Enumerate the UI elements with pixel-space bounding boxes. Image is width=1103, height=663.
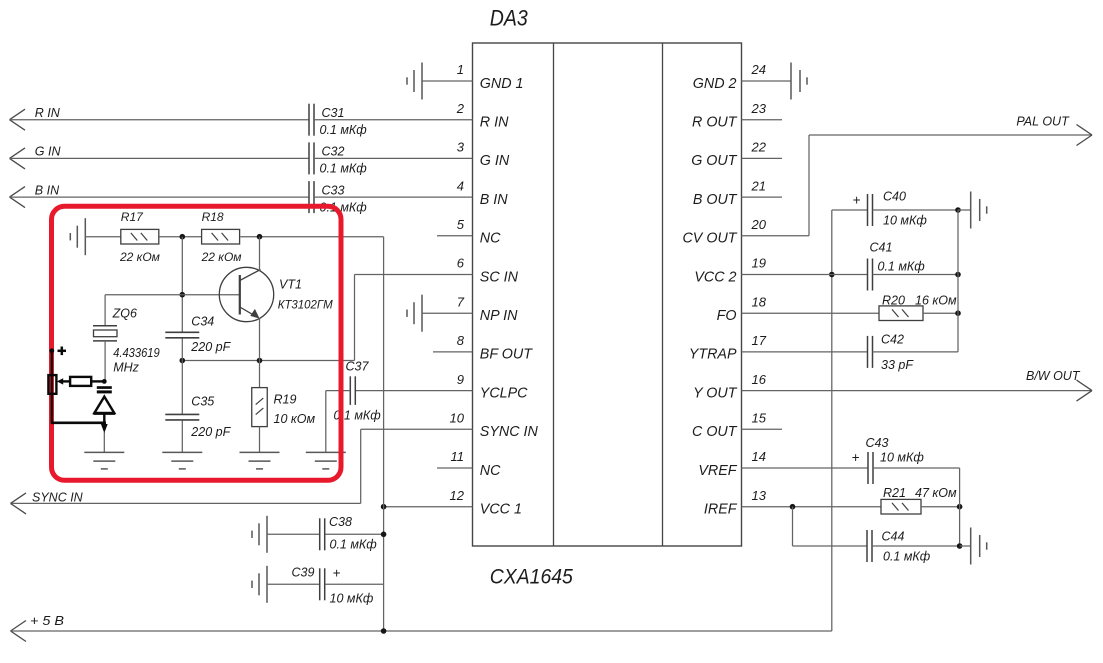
capacitor C31: [309, 104, 314, 136]
ground left of R17: [70, 218, 85, 255]
resistor in series with varicap: [70, 377, 91, 386]
svg-text:SC IN: SC IN: [480, 269, 519, 285]
svg-text:24: 24: [751, 62, 766, 77]
wire C37 to ground: [326, 391, 351, 453]
wire tuning vertical: [51, 351, 53, 423]
node emitter bottom: [257, 358, 263, 364]
pin 21 number: [751, 178, 766, 193]
value C44 0.1 мКф: [883, 549, 931, 563]
svg-text:6: 6: [457, 256, 465, 271]
svg-text:20: 20: [751, 217, 767, 232]
svg-text:C37: C37: [346, 360, 370, 374]
pin 8 label BF OUT: [480, 347, 533, 363]
potentiometer wiper arrow: [57, 378, 70, 384]
wire pin 7: [422, 312, 473, 314]
ground left of C39: [252, 566, 267, 603]
svg-text:10 кОм: 10 кОм: [274, 412, 316, 426]
node C44 right: [957, 543, 963, 549]
capacitor C39: [320, 568, 325, 600]
transistor VT1: [219, 267, 273, 321]
value C42 33 pF: [881, 358, 914, 372]
svg-text:SYNC IN: SYNC IN: [32, 490, 84, 504]
pin 14 number: [752, 449, 766, 464]
node C38-VCC: [381, 532, 387, 538]
label R20: [882, 294, 905, 308]
value C37 0.1 мКф: [334, 409, 382, 423]
pin 11 NC stub: [437, 467, 473, 469]
node tuning + terminal: [49, 348, 54, 353]
pin 2 label R IN: [480, 115, 509, 131]
wire pin 18 FO: [742, 312, 880, 314]
svg-text:4.433619: 4.433619: [113, 346, 160, 360]
IC designator DA3: [490, 6, 529, 31]
ground right of C44: [971, 528, 987, 565]
pin 6 number: [457, 256, 465, 271]
value C33 0.1 мКф: [320, 200, 368, 214]
value R20 16 кОм: [915, 294, 957, 308]
capacitor C33: [309, 181, 314, 213]
svg-text:33 pF: 33 pF: [881, 358, 914, 372]
pin 2 number: [456, 101, 465, 116]
svg-text:9: 9: [457, 372, 464, 387]
wire R17 to R18: [159, 236, 202, 238]
wire pin 12 VCC 1: [384, 506, 473, 508]
svg-text:NC: NC: [480, 463, 501, 479]
wire pin 1: [422, 80, 473, 82]
label C33: [322, 183, 345, 197]
capacitor C43: [868, 452, 873, 484]
svg-text:B OUT: B OUT: [693, 192, 738, 208]
svg-text:7: 7: [457, 294, 465, 309]
value C43 10 мКф: [880, 450, 924, 464]
pin 9 number: [457, 372, 464, 387]
wire IREF down to C44: [793, 507, 868, 546]
polarity + of C43: [852, 450, 860, 465]
pin 19 number: [752, 256, 766, 271]
svg-text:C44: C44: [882, 530, 905, 544]
svg-text:Y OUT: Y OUT: [693, 385, 738, 401]
pin 4 number: [457, 178, 464, 193]
ground below C35: [162, 452, 202, 469]
svg-text:R18: R18: [202, 210, 224, 224]
ground at pin 24: [791, 63, 807, 100]
polarity + of tuning input: [58, 347, 67, 356]
svg-text:C40: C40: [883, 190, 906, 204]
resistor R21: [881, 499, 921, 514]
svg-text:5: 5: [457, 217, 465, 232]
svg-text:C31: C31: [322, 106, 345, 120]
ground right of C40: [971, 192, 987, 229]
capacitor C35: [165, 414, 199, 420]
svg-text:R IN: R IN: [480, 115, 509, 131]
capacitor C34: [165, 332, 199, 338]
signal label + 5 В: [30, 614, 64, 628]
svg-text:11: 11: [451, 449, 465, 464]
pin 20 label CV OUT: [682, 231, 737, 247]
label C40: [883, 190, 906, 204]
wire CV OUT to PAL OUT: [742, 135, 1093, 236]
svg-text:8: 8: [457, 333, 465, 348]
svg-text:CV OUT: CV OUT: [682, 231, 737, 247]
wire VCC vertical: [240, 237, 383, 631]
IC DA3 CXA1645 body: [473, 43, 742, 546]
svg-text:22: 22: [751, 140, 767, 155]
svg-text:10: 10: [450, 411, 465, 426]
capacitor C44: [867, 530, 872, 562]
wire SYNC IN: [11, 429, 473, 503]
value C40 10 мКф: [883, 214, 927, 228]
signal label B IN: [35, 183, 60, 197]
svg-text:C33: C33: [322, 183, 345, 197]
polarity + of C39: [333, 566, 341, 581]
label ZQ6: [112, 306, 137, 320]
input arrow SYNC IN: [11, 493, 27, 514]
svg-text:FO: FO: [717, 308, 737, 324]
svg-text:R20: R20: [882, 294, 905, 308]
supply arrow +5V: [11, 621, 27, 642]
wire G IN to C32: [10, 157, 310, 159]
wire C43 right: [873, 467, 960, 469]
label C34: [191, 315, 214, 329]
label C32: [322, 145, 345, 159]
svg-text:10 мКф: 10 мКф: [883, 214, 927, 228]
wire C42 right: [873, 351, 959, 353]
wire C44 right: [872, 545, 960, 547]
pin 13 label IREF: [704, 502, 738, 518]
pin 5 number: [457, 217, 465, 232]
svg-text:G IN: G IN: [480, 153, 510, 169]
wire right vertical C43-C44: [959, 468, 961, 546]
svg-text:220 pF: 220 pF: [190, 425, 231, 439]
input arrow B IN: [10, 187, 26, 208]
node +5V-VCC vertical: [381, 628, 387, 634]
pin 10 number: [450, 411, 465, 426]
svg-text:3: 3: [457, 140, 465, 155]
pin 18 label FO: [717, 308, 737, 324]
red highlight box: [52, 206, 342, 480]
potentiometer RP: [48, 375, 56, 394]
ground below varicap: [84, 452, 124, 469]
wire ground to C39: [267, 583, 320, 585]
svg-text:IREF: IREF: [704, 502, 738, 518]
label R19: [274, 392, 297, 406]
signal label G IN: [35, 145, 62, 159]
pin 21 stub: [742, 196, 783, 198]
capacitor C32: [309, 142, 314, 174]
varicap VD triangle: [94, 397, 116, 414]
wire Y OUT to B/W OUT: [742, 390, 1093, 392]
wire pin 14 VREF: [742, 467, 869, 469]
polarity + of C40: [853, 192, 861, 207]
svg-text:2: 2: [456, 101, 465, 116]
svg-text:VT1: VT1: [279, 278, 302, 292]
pin 3 label G IN: [480, 153, 510, 169]
value crystal MHz: [113, 361, 139, 375]
node C40 right: [955, 207, 961, 213]
pin 15 number: [752, 411, 767, 426]
value R18 22 кОм: [201, 250, 242, 264]
pin 1 number: [457, 62, 464, 77]
signal label SYNC IN: [32, 490, 84, 504]
wire C31 to pin 2: [314, 119, 473, 121]
node emitter row / C34-C35: [180, 358, 186, 364]
wire crystal bottom: [104, 341, 106, 382]
pin 19 label VCC 2: [694, 269, 736, 285]
svg-text:R OUT: R OUT: [692, 115, 738, 131]
label C37: [346, 360, 370, 374]
node IREF left: [790, 504, 796, 510]
svg-text:PAL OUT: PAL OUT: [1016, 115, 1070, 129]
svg-text:220 pF: 220 pF: [190, 340, 231, 354]
node varicap top: [102, 379, 107, 384]
capacitor C40: [868, 194, 873, 226]
svg-text:16 кОм: 16 кОм: [915, 294, 957, 308]
svg-text:+: +: [853, 192, 861, 207]
node base row: [180, 292, 186, 298]
wire pin 17 YTRAP: [742, 351, 868, 353]
pin 4 label B IN: [480, 192, 508, 208]
svg-text:19: 19: [752, 256, 766, 271]
svg-text:C43: C43: [866, 436, 889, 450]
svg-text:C32: C32: [322, 145, 345, 159]
label C38: [329, 515, 352, 529]
svg-text:0.1 мКф: 0.1 мКф: [330, 537, 378, 551]
value C34 220 pF: [190, 340, 231, 354]
wire bias divider vertical: [181, 237, 183, 453]
wire pin 19 VCC 2: [742, 274, 868, 276]
svg-text:C38: C38: [329, 515, 352, 529]
pin 24 label GND 2: [693, 76, 737, 92]
pin 16 number: [752, 372, 767, 387]
svg-text:22 кОм: 22 кОм: [201, 250, 242, 264]
pin 18 number: [752, 294, 767, 309]
svg-text:BF OUT: BF OUT: [480, 347, 533, 363]
svg-text:YCLPC: YCLPC: [480, 385, 528, 401]
wire pin 9 to C37: [356, 390, 473, 392]
svg-text:C34: C34: [191, 315, 214, 329]
wire right vertical C40-C42: [957, 210, 959, 352]
pin 20 number: [751, 217, 767, 232]
wire SC IN net: [182, 275, 472, 361]
svg-text:R19: R19: [274, 392, 297, 406]
svg-text:16: 16: [752, 372, 767, 387]
signal label B/W OUT: [1026, 369, 1081, 383]
pin 11 label NC: [480, 463, 501, 479]
wire R19 to ground: [259, 427, 261, 453]
pin 3 number: [457, 140, 465, 155]
pin 22 stub: [742, 157, 783, 159]
svg-text:G OUT: G OUT: [691, 153, 738, 169]
svg-text:C41: C41: [870, 241, 893, 255]
svg-text:21: 21: [751, 178, 766, 193]
wire C41 right: [873, 274, 959, 276]
wire R21 right: [921, 506, 960, 508]
varicap VD plates: [97, 386, 112, 393]
svg-text:+: +: [852, 450, 860, 465]
pin 6 label SC IN: [480, 269, 519, 285]
value R17 22 кОм: [119, 250, 160, 264]
wire C38 to VCC vertical: [325, 533, 383, 535]
label C43: [866, 436, 889, 450]
svg-text:0.1 мКф: 0.1 мКф: [320, 123, 368, 137]
pin 15 stub: [742, 428, 783, 430]
svg-text:CXA1645: CXA1645: [490, 566, 573, 589]
wire B IN to C33: [10, 196, 310, 198]
svg-text:+: +: [333, 566, 341, 581]
svg-text:MHz: MHz: [113, 361, 139, 375]
wire emitter node to R19: [259, 361, 261, 388]
pin 23 stub: [742, 119, 783, 121]
wire R IN to C31: [10, 119, 310, 121]
wire tuning bottom horizontal: [51, 421, 106, 424]
wire crystal top: [104, 295, 106, 326]
svg-text:DA3: DA3: [490, 6, 529, 31]
pin 23 label R OUT: [692, 115, 738, 131]
node R17-R18: [180, 234, 186, 240]
pin 23 number: [751, 101, 767, 116]
wire pin 24: [742, 80, 792, 82]
pin 10 label SYNC IN: [480, 424, 539, 440]
resistor R18: [202, 229, 240, 244]
resistor R20: [879, 306, 923, 321]
svg-text:+ 5 В: + 5 В: [30, 614, 64, 628]
svg-text:B IN: B IN: [480, 192, 508, 208]
capacitor C42: [868, 336, 873, 368]
svg-text:VCC 2: VCC 2: [694, 269, 736, 285]
svg-text:NP IN: NP IN: [480, 308, 518, 324]
node R18-collector: [257, 234, 263, 240]
wire C32 to pin 3: [314, 157, 473, 159]
svg-text:1: 1: [457, 62, 464, 77]
wire resistor to varicap node: [91, 380, 104, 382]
pin 7 number: [457, 294, 465, 309]
label R18: [202, 210, 224, 224]
svg-text:10 мКф: 10 мКф: [330, 591, 374, 605]
capacitor C37: [350, 376, 355, 405]
svg-text:0.1 мКф: 0.1 мКф: [883, 549, 931, 563]
svg-text:15: 15: [752, 411, 767, 426]
svg-text:GND 2: GND 2: [693, 76, 737, 92]
node R20 right: [955, 310, 961, 316]
pin 17 label YTRAP: [689, 347, 737, 363]
svg-text:ZQ6: ZQ6: [112, 306, 137, 320]
pin 5 label NC: [480, 231, 501, 247]
wire R20 right: [923, 312, 958, 314]
capacitor C41: [868, 259, 873, 291]
svg-text:14: 14: [752, 449, 766, 464]
value crystal 4.433619: [113, 346, 160, 360]
wire C33 to pin 4: [314, 196, 473, 198]
svg-text:NC: NC: [480, 231, 501, 247]
svg-text:КТ3102ГМ: КТ3102ГМ: [278, 298, 334, 312]
label C41: [870, 241, 893, 255]
svg-text:R IN: R IN: [35, 106, 61, 120]
pin 14 label VREF: [698, 463, 737, 479]
svg-text:C OUT: C OUT: [692, 424, 738, 440]
ground at pin 1: [407, 63, 422, 100]
label R17: [121, 210, 144, 224]
pin 9 label YCLPC: [480, 385, 528, 401]
svg-text:0.1 мКф: 0.1 мКф: [878, 259, 926, 273]
node R21 right: [957, 504, 963, 510]
svg-text:GND 1: GND 1: [480, 76, 524, 92]
value C38 0.1 мКф: [330, 537, 378, 551]
value R21 47 кОм: [915, 486, 957, 500]
pin 11 number: [451, 449, 465, 464]
svg-text:C35: C35: [191, 394, 214, 408]
output arrow PAL OUT: [1077, 125, 1093, 146]
ground left of C38: [252, 516, 267, 553]
node VCC1 junction: [381, 504, 387, 510]
wire C40 right: [873, 209, 959, 211]
wire C39 to VCC vertical: [325, 583, 383, 585]
signal label PAL OUT: [1016, 115, 1070, 129]
label VT1: [279, 278, 302, 292]
wire varicap to ground: [103, 432, 105, 452]
label C44: [882, 530, 905, 544]
node C41 right: [955, 272, 961, 278]
svg-text:C39: C39: [292, 566, 315, 580]
label КТ3102ГМ: [278, 298, 334, 312]
pin 22 number: [751, 140, 767, 155]
svg-text:10 мКф: 10 мКф: [880, 450, 924, 464]
svg-text:B/W OUT: B/W OUT: [1026, 369, 1081, 383]
arrow to ground (down): [101, 424, 108, 433]
wire emitter: [259, 319, 261, 361]
label C35: [191, 394, 214, 408]
wire collector: [259, 237, 261, 271]
svg-text:C42: C42: [881, 333, 904, 347]
ground below C37: [306, 452, 346, 469]
output arrow B/W OUT: [1077, 380, 1093, 401]
wire ground to C38: [267, 533, 320, 535]
pin 15 label C OUT: [692, 424, 738, 440]
IC part number CXA1645: [490, 566, 573, 589]
svg-text:23: 23: [751, 101, 767, 116]
input arrow R IN: [10, 109, 26, 130]
label C39: [292, 566, 315, 580]
wire C40 to ground: [958, 209, 971, 211]
node VCC2 left: [829, 272, 835, 278]
value C35 220 pF: [190, 425, 231, 439]
pin 1 label GND 1: [480, 76, 524, 92]
svg-text:B IN: B IN: [35, 183, 60, 197]
pin 8 number: [457, 333, 465, 348]
capacitor C38: [320, 518, 325, 550]
ground at pin 7: [407, 295, 422, 332]
svg-text:13: 13: [752, 488, 767, 503]
ground below R19: [240, 452, 280, 469]
label C31: [322, 106, 345, 120]
wire C44 to ground: [960, 545, 971, 547]
pin 8 BF OUT stub: [433, 351, 473, 353]
input arrow G IN: [10, 148, 26, 169]
svg-text:SYNC IN: SYNC IN: [480, 424, 539, 440]
svg-text:YTRAP: YTRAP: [689, 347, 737, 363]
svg-text:12: 12: [450, 488, 465, 503]
svg-text:18: 18: [752, 294, 767, 309]
svg-text:R21: R21: [883, 486, 906, 500]
resistor R17: [121, 229, 159, 244]
label C42: [881, 333, 904, 347]
svg-text:0.1 мКф: 0.1 мКф: [320, 162, 368, 176]
wire pin 13 IREF: [742, 506, 882, 508]
svg-text:R17: R17: [121, 210, 144, 224]
svg-text:17: 17: [752, 333, 767, 348]
wire +5V rail: [11, 630, 832, 632]
signal label R IN: [35, 106, 61, 120]
resistor R19: [252, 388, 268, 427]
